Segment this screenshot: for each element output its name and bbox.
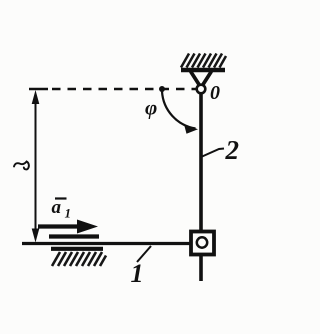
leader line to 2 [201,149,224,158]
svg-text:0: 0 [210,82,220,104]
svg-text:1: 1 [65,206,72,221]
svg-text:a: a [52,197,62,218]
dot on dashed line [159,86,165,92]
label l (rotated script ell) [14,162,29,170]
angle arc phi [162,92,196,129]
svg-text:φ: φ [145,96,157,120]
bar 1 [22,242,190,245]
leader line to 1 [137,246,151,262]
ceiling line [181,68,225,72]
dashed line [29,88,48,91]
dimension line l [35,95,37,238]
slider box [191,232,214,255]
dimension arrow down [32,229,40,243]
acceleration arrow a1 [38,224,82,228]
ground hatching [52,252,106,266]
dimension arrow up [32,90,40,104]
rod 2 upper segment [199,93,203,231]
pivot triangle [191,72,211,85]
ceiling hatching [181,54,226,68]
guide top plate [49,234,99,238]
svg-text:2: 2 [225,135,240,165]
guide bottom plate [51,247,103,251]
arc arrowhead [184,124,198,134]
rod 2 lower segment [199,255,203,281]
pin circle O [197,85,206,94]
svg-text:1: 1 [131,259,144,288]
slider pin circle [197,237,207,247]
